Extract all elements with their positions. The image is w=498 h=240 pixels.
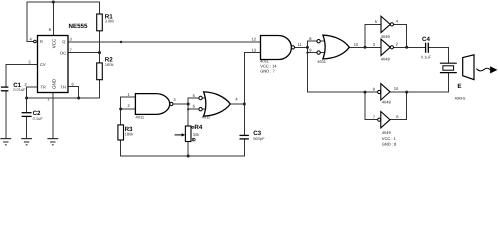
svg-text:3: 3: [70, 37, 73, 42]
svg-text:2: 2: [128, 103, 131, 108]
wire bottom rail R3-R4-C3: [121, 155, 245, 157]
wire G2 input tie and R4 top lead: [187, 98, 189, 126]
svg-text:R4: R4: [194, 124, 202, 131]
wire bottom node TR-TH-R2: [27, 80, 100, 98]
junction G1 out G2 in R4: [187, 103, 190, 106]
wire lower feed to inv C: [307, 91, 377, 93]
svg-text:GND : 7: GND : 7: [260, 69, 275, 74]
svg-text:GND: GND: [51, 78, 56, 89]
wire C4 to speaker top: [428, 47, 448, 62]
svg-text:5: 5: [375, 19, 378, 24]
wire CV pin5 stub: [6, 63, 38, 65]
wire C3 bottom lead: [243, 139, 245, 156]
svg-text:30k: 30k: [193, 132, 199, 137]
junction TH node: [77, 97, 80, 100]
wire G1 input tie vertical: [120, 97, 122, 125]
svg-text:VCC: VCC: [51, 38, 56, 48]
svg-text:DC: DC: [60, 51, 66, 56]
junction DC R1 R2: [98, 51, 101, 54]
svg-text:3.9M: 3.9M: [105, 18, 114, 23]
wire C3 node up to G3 pin13: [244, 53, 260, 105]
wire G2 out to C3 node: [230, 103, 244, 105]
wire CV to C1: [5, 64, 7, 87]
svg-text:NE555: NE555: [69, 23, 88, 30]
resistor R3: [118, 125, 133, 140]
svg-text:4011: 4011: [202, 115, 211, 120]
svg-text:40KHz: 40KHz: [455, 97, 466, 101]
svg-text:13: 13: [252, 47, 257, 52]
svg-text:4049: 4049: [382, 130, 392, 135]
svg-text:10: 10: [394, 86, 399, 91]
svg-text:GND : 8: GND : 8: [382, 141, 397, 146]
wire G4 pin9 stub: [307, 52, 324, 54]
wire C2 bottom lead: [26, 116, 28, 138]
svg-text:1: 1: [128, 92, 131, 97]
ground (C1): [0, 139, 11, 145]
NAND gate G1 (4011 pins 1,2,3): [128, 92, 177, 120]
svg-text:8: 8: [309, 36, 312, 41]
junction G2 out C3 pin13: [243, 103, 246, 106]
wire C3 top lead: [243, 104, 245, 135]
junction top rail pin8: [52, 1, 55, 4]
wire G3 out: [294, 46, 307, 48]
svg-text:4011: 4011: [136, 115, 145, 120]
svg-text:CV: CV: [40, 62, 46, 67]
wire inv A out down to B out: [394, 24, 407, 47]
wire GND pin1 lead: [52, 93, 54, 139]
svg-text:4011: 4011: [317, 59, 326, 64]
svg-text:11: 11: [298, 42, 303, 47]
svg-text:6: 6: [72, 82, 75, 87]
wire G2 pin5 stub: [188, 97, 205, 99]
wire G1 out to G2 node: [173, 103, 188, 105]
wire R1 top lead: [99, 2, 101, 14]
wire inv C/D tie vertical: [364, 92, 366, 120]
inverter U2C 4049 (pins 9,10 input bubble): [373, 84, 399, 105]
NAND gate G2 (4011 pins 5,6,4 negative-OR style): [193, 92, 239, 120]
wire inv D out up to C out: [390, 92, 407, 120]
wire R3 bottom lead: [120, 140, 122, 156]
svg-text:6: 6: [396, 114, 399, 119]
svg-text:4: 4: [30, 37, 33, 42]
555 pin numbers: [25, 27, 75, 101]
ground (C2): [21, 139, 32, 145]
svg-text:7: 7: [70, 48, 73, 53]
svg-text:4049: 4049: [381, 57, 391, 62]
junction dot on Q wire: [120, 41, 122, 43]
wire top rail: [27, 1, 100, 3]
junction inv C input: [364, 91, 367, 94]
junction R4 bottom rail: [187, 155, 190, 158]
wire R1 bottom to R2 top (crosses Q line): [99, 31, 101, 63]
potentiometer R4: [175, 124, 203, 141]
wire inv A input stub: [365, 23, 381, 25]
inverter U2A 4049 (pins 5,4): [375, 16, 399, 39]
wire inv A input tie: [364, 24, 366, 47]
svg-text:4: 4: [396, 19, 399, 24]
svg-text:10: 10: [354, 42, 359, 47]
NAND gate G3 (4011 pins 12,13,11): [252, 36, 303, 74]
wire inv B out to C4: [394, 46, 426, 48]
svg-text:Q: Q: [62, 39, 65, 44]
svg-text:R: R: [40, 39, 43, 44]
wire G1 pin2 stub: [121, 108, 136, 110]
svg-text:9: 9: [373, 86, 376, 91]
wire DC pin7 stub: [68, 52, 100, 54]
inverter U2D 4049 (pins 7,6 input bubble): [373, 112, 399, 147]
speaker horn: [463, 55, 474, 80]
capacitor C2: [22, 110, 44, 121]
svg-text:5: 5: [193, 93, 196, 98]
inverter U2B 4049 (pins 3,2): [373, 39, 399, 62]
wire inv D input stub: [365, 119, 378, 121]
junction G4 out inv A/B: [364, 46, 367, 49]
svg-text:0.1uF: 0.1uF: [421, 55, 432, 60]
junction inv C/D outputs: [405, 91, 408, 94]
wire R4 bottom lead: [187, 142, 189, 157]
svg-text:4049: 4049: [381, 34, 391, 39]
wire G1 pin1 stub: [121, 96, 136, 98]
wire vcc pin8 stub: [52, 2, 54, 36]
wire left rail to reset: [27, 2, 33, 42]
svg-text:TR: TR: [41, 85, 46, 90]
wire Q output pin3 to G3 pin12: [68, 41, 261, 43]
svg-text:0.1uF: 0.1uF: [33, 116, 44, 121]
junction G4 pin9: [306, 52, 308, 54]
svg-text:4: 4: [235, 97, 238, 102]
svg-text:6: 6: [193, 103, 196, 108]
wire G4 pin8 stub: [307, 40, 324, 42]
piezo transducer E: [440, 63, 466, 100]
svg-text:3: 3: [373, 42, 376, 47]
svg-text:12: 12: [252, 36, 257, 41]
junction G3 out: [306, 46, 309, 49]
svg-text:5: 5: [29, 60, 32, 65]
wire G4 input tie vertical down to lower pair: [306, 41, 308, 92]
resistor R2: [97, 56, 114, 79]
svg-text:0.01uF: 0.01uF: [13, 87, 26, 92]
wire speaker bottom lead: [447, 73, 449, 92]
svg-text:8: 8: [49, 27, 52, 32]
svg-text:4049: 4049: [382, 100, 392, 105]
wire TR pin2 stub: [27, 87, 38, 98]
NAND gate G4 (4011 pins 8,9,10 negative-OR style): [309, 35, 359, 64]
555 internal pin names: [40, 38, 66, 89]
wire TH pin6 stub: [68, 87, 79, 99]
reset bubble pin4: [34, 40, 37, 43]
svg-text:3: 3: [173, 97, 176, 102]
svg-text:160k: 160k: [105, 62, 114, 67]
svg-text:1: 1: [47, 96, 50, 101]
svg-text:180k: 180k: [125, 131, 134, 136]
svg-text:9: 9: [309, 48, 312, 53]
wire G2 pin6 stub: [188, 108, 205, 110]
junction G1 inputs R3: [119, 108, 122, 111]
junction G2 pin6: [187, 108, 189, 110]
ground (555 GND): [47, 139, 58, 145]
sound wave arrow: [476, 66, 497, 73]
op-amp U1 : NE555 timer body: [38, 36, 69, 93]
junction inv A/B outputs: [405, 46, 408, 49]
svg-text:E: E: [457, 83, 461, 90]
svg-text:560pF: 560pF: [253, 136, 265, 141]
capacitor C1: [1, 82, 26, 92]
junction TR C2: [25, 97, 28, 100]
svg-text:2: 2: [396, 42, 399, 47]
wire C1 bottom lead: [5, 91, 7, 139]
svg-text:VCC : 1: VCC : 1: [382, 136, 397, 141]
resistor R1: [97, 14, 114, 31]
wire inv C out to speaker bottom: [390, 91, 448, 93]
svg-text:C4: C4: [422, 36, 430, 43]
wire C2 top lead: [26, 98, 28, 113]
capacitor C4: [421, 36, 432, 60]
wire G4 out to inv B: [349, 46, 381, 48]
svg-text:7: 7: [373, 114, 376, 119]
capacitor C3: [240, 130, 266, 141]
svg-text:TH: TH: [60, 85, 65, 90]
